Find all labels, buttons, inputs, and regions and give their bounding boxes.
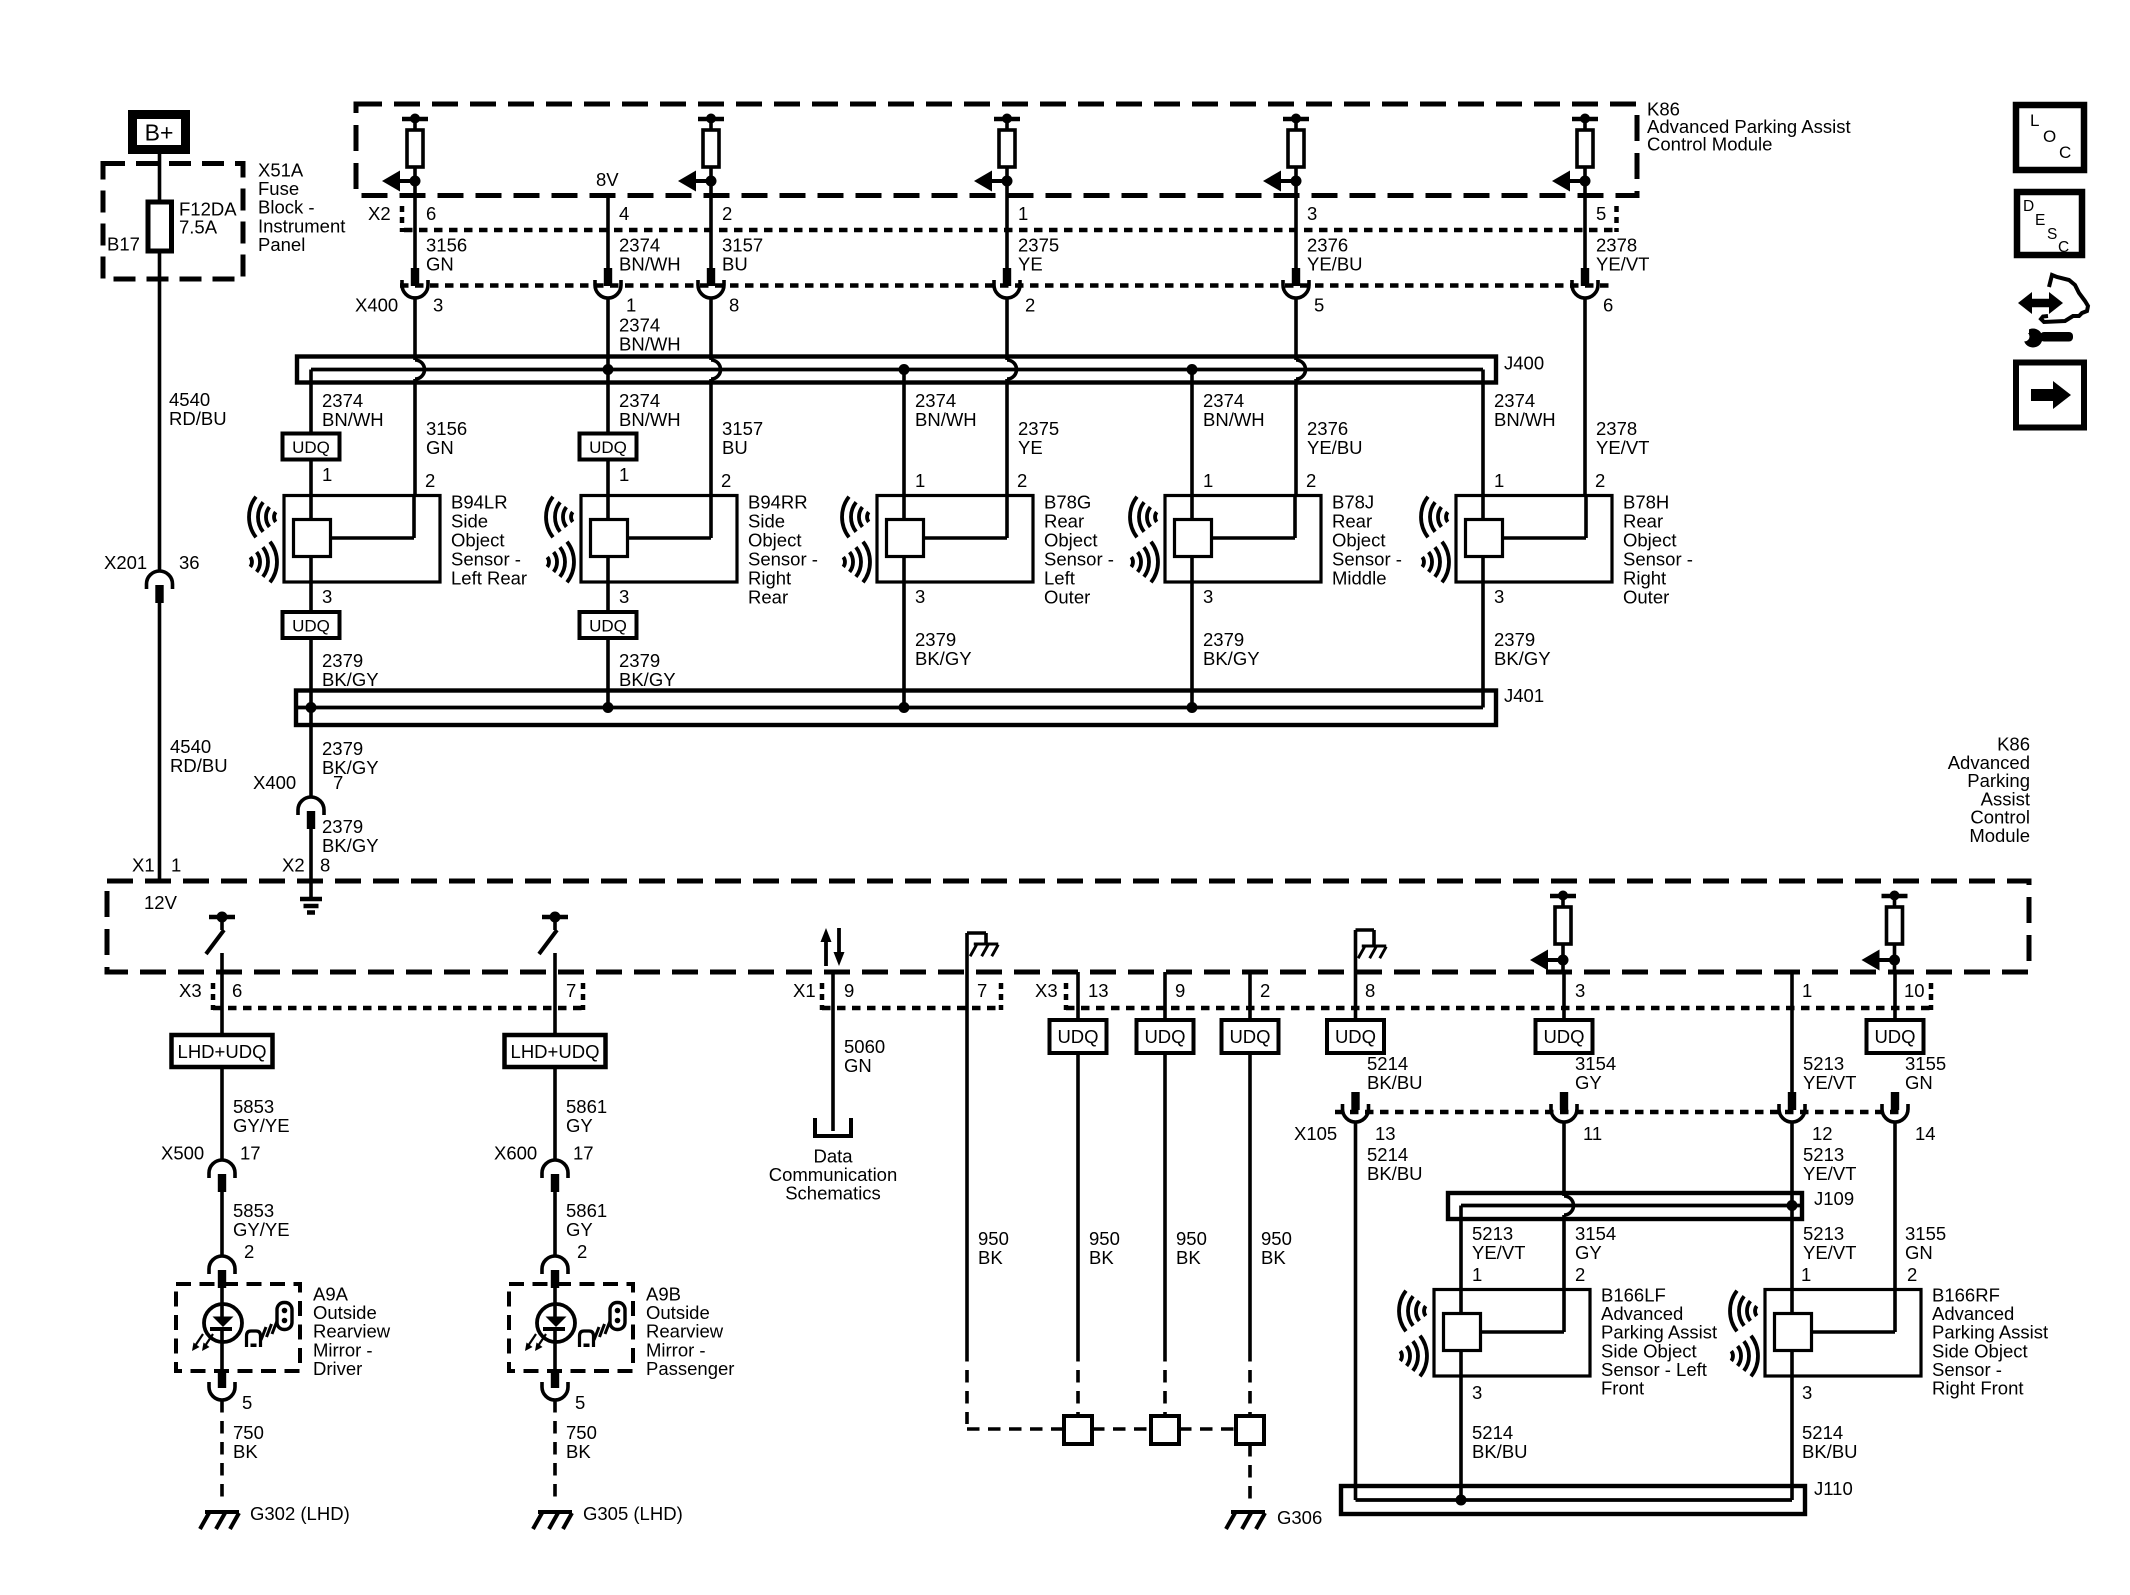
dashed links between splices <box>1092 1427 1151 1431</box>
wire to X2 <box>1583 181 1587 268</box>
wire to X2 <box>1005 181 1009 268</box>
svg-text:Rear: Rear <box>1044 511 1084 532</box>
wire 5214 BK/BU to J110 <box>1354 1122 1358 1500</box>
connector pin 5 <box>218 1370 226 1388</box>
svg-text:UDQ: UDQ <box>1229 1026 1270 1047</box>
svg-text:950: 950 <box>1261 1228 1292 1249</box>
ground G305 <box>538 1510 572 1514</box>
svg-text:BU: BU <box>722 254 748 275</box>
svg-text:X400: X400 <box>253 772 296 793</box>
connector X105 terminal <box>1788 1092 1796 1110</box>
svg-text:X2: X2 <box>282 855 305 876</box>
svg-text:BK: BK <box>566 1441 591 1462</box>
svg-text:2: 2 <box>1260 980 1270 1001</box>
svg-text:2: 2 <box>425 470 435 491</box>
svg-text:2374: 2374 <box>619 390 660 411</box>
svg-text:Rear: Rear <box>1332 511 1372 532</box>
svg-text:Front: Front <box>1601 1378 1644 1399</box>
svg-text:7.5A: 7.5A <box>179 217 218 238</box>
DESC navigation icon <box>2017 192 2082 255</box>
ultrasonic icon for B94LR <box>249 497 277 583</box>
svg-text:5214: 5214 <box>1472 1422 1513 1443</box>
svg-text:Object: Object <box>1332 530 1385 551</box>
connector X400 row <box>400 283 1610 288</box>
ultrasonic icon for B78J <box>1130 497 1158 583</box>
resistor (module internal, output 3) <box>1002 114 1012 124</box>
svg-text:7: 7 <box>977 980 987 1001</box>
svg-text:5213: 5213 <box>1472 1223 1513 1244</box>
svg-text:3: 3 <box>619 586 629 607</box>
wire 3154 GY pin 3 <box>1562 972 1566 1020</box>
connector X400 terminal <box>604 268 612 286</box>
svg-text:BN/WH: BN/WH <box>322 409 384 430</box>
svg-text:3: 3 <box>1575 980 1585 1001</box>
svg-text:B78G: B78G <box>1044 492 1091 513</box>
connector pin 2 <box>542 1256 568 1274</box>
outside rearview mirror A9B dashed box <box>509 1284 633 1371</box>
svg-text:UDQ: UDQ <box>1543 1026 1584 1047</box>
svg-text:1: 1 <box>626 295 636 316</box>
wire 5213 YE/VT through J109 <box>1790 1122 1794 1290</box>
svg-text:5853: 5853 <box>233 1200 274 1221</box>
wire 3154 GY to B166LF pin2 (hops J109) <box>1562 1122 1566 1196</box>
svg-text:2379: 2379 <box>322 650 363 671</box>
svg-text:UDQ: UDQ <box>1057 1026 1098 1047</box>
svg-text:BN/WH: BN/WH <box>1494 409 1556 430</box>
svg-text:YE/BU: YE/BU <box>1307 254 1363 275</box>
svg-text:Side: Side <box>451 511 488 532</box>
svg-text:2379: 2379 <box>322 738 363 759</box>
svg-text:2378: 2378 <box>1596 235 1637 256</box>
svg-text:UDQ: UDQ <box>292 617 330 636</box>
wire B+ to fuse <box>158 154 162 202</box>
svg-text:LHD+UDQ: LHD+UDQ <box>511 1041 600 1062</box>
svg-text:BK/GY: BK/GY <box>1494 648 1551 669</box>
svg-text:GY/YE: GY/YE <box>233 1219 290 1240</box>
wire 5214 BK/BU pin 8 <box>1354 972 1358 1020</box>
option box LHD+UDQ <box>505 1035 606 1067</box>
svg-text:YE: YE <box>1018 437 1043 458</box>
wire <box>553 1067 557 1160</box>
svg-text:10: 10 <box>1904 980 1925 1001</box>
svg-text:5: 5 <box>575 1392 585 1413</box>
svg-text:3: 3 <box>1203 586 1213 607</box>
svg-text:2375: 2375 <box>1018 418 1059 439</box>
internal resistor for pin 10 <box>1890 891 1900 901</box>
svg-text:1: 1 <box>171 855 181 876</box>
connector X400 terminal <box>1003 268 1011 286</box>
svg-text:C: C <box>2059 143 2071 162</box>
svg-text:2374: 2374 <box>619 315 660 336</box>
svg-text:1: 1 <box>1494 470 1504 491</box>
svg-text:3: 3 <box>1494 586 1504 607</box>
svg-text:3156: 3156 <box>426 235 467 256</box>
svg-text:Sensor -: Sensor - <box>1623 549 1693 570</box>
svg-text:GY: GY <box>1575 1072 1602 1093</box>
svg-text:Sensor -: Sensor - <box>1332 549 1402 570</box>
svg-text:2374: 2374 <box>915 390 956 411</box>
svg-text:BK/GY: BK/GY <box>322 669 379 690</box>
svg-text:12: 12 <box>1812 1123 1833 1144</box>
wire to LHD+UDQ left <box>220 972 224 1035</box>
svg-text:BK/BU: BK/BU <box>1472 1441 1528 1462</box>
internal switch (left mirror out) <box>209 915 235 920</box>
ultrasonic icon for B94RR <box>546 497 574 583</box>
serial data arrows <box>821 928 832 942</box>
svg-text:B+: B+ <box>145 120 174 146</box>
wire to X2 <box>413 181 417 268</box>
svg-text:3154: 3154 <box>1575 1053 1616 1074</box>
wrench <box>2024 329 2043 348</box>
option code UDQ <box>1137 1020 1194 1053</box>
wire through J400 with hop <box>413 298 417 360</box>
svg-text:S: S <box>2047 226 2057 243</box>
svg-text:GN: GN <box>426 254 454 275</box>
svg-text:GN: GN <box>844 1055 872 1076</box>
wire 950 BK (pin 2) <box>1248 972 1252 1020</box>
off-page bracket Data Communication <box>815 1118 851 1136</box>
svg-text:YE/VT: YE/VT <box>1803 1163 1856 1184</box>
svg-text:BK: BK <box>1176 1247 1201 1268</box>
svg-text:6: 6 <box>232 980 242 1001</box>
svg-text:Right: Right <box>1623 568 1666 589</box>
svg-text:RD/BU: RD/BU <box>170 755 228 776</box>
svg-text:UDQ: UDQ <box>292 438 330 457</box>
ground G306 <box>1231 1510 1265 1514</box>
svg-text:Left: Left <box>1044 568 1075 589</box>
svg-text:UDQ: UDQ <box>1335 1026 1376 1047</box>
svg-text:2376: 2376 <box>1307 235 1348 256</box>
svg-text:5213: 5213 <box>1803 1144 1844 1165</box>
svg-text:UDQ: UDQ <box>1874 1026 1915 1047</box>
svg-text:LHD+UDQ: LHD+UDQ <box>178 1041 267 1062</box>
K86 Advanced Parking Assist Control Module (top) dashed box <box>356 104 1637 196</box>
svg-text:6: 6 <box>426 203 436 224</box>
svg-text:BK: BK <box>978 1247 1003 1268</box>
svg-text:2: 2 <box>1575 1264 1585 1285</box>
svg-text:G305 (LHD): G305 (LHD) <box>583 1503 683 1524</box>
svg-text:G302 (LHD): G302 (LHD) <box>250 1503 350 1524</box>
K86 Advanced Parking Assist Control Module (bottom) dashed box <box>107 881 2029 972</box>
svg-text:Schematics: Schematics <box>785 1183 881 1204</box>
svg-text:J401: J401 <box>1504 685 1544 706</box>
ultrasonic icon for B166LF <box>1399 1291 1427 1377</box>
svg-text:5: 5 <box>1314 295 1324 316</box>
svg-text:BK: BK <box>233 1441 258 1462</box>
svg-text:2: 2 <box>1306 470 1316 491</box>
option code UDQ <box>580 434 637 460</box>
svg-text:B17: B17 <box>107 234 140 255</box>
svg-text:X400: X400 <box>355 295 398 316</box>
svg-text:Control Module: Control Module <box>1647 134 1772 155</box>
svg-text:8: 8 <box>320 855 330 876</box>
wire 750 BK <box>220 1400 224 1502</box>
sensor B94LR <box>284 496 440 583</box>
internal ground for pin 8 <box>1354 930 1358 972</box>
svg-text:BN/WH: BN/WH <box>619 409 681 430</box>
svg-text:Object: Object <box>1044 530 1097 551</box>
wire 750 BK <box>553 1400 557 1502</box>
svg-text:1: 1 <box>1802 980 1812 1001</box>
svg-text:2374: 2374 <box>1494 390 1535 411</box>
svg-text:Passenger: Passenger <box>646 1358 734 1379</box>
svg-text:1: 1 <box>619 464 629 485</box>
svg-text:C: C <box>2058 239 2069 256</box>
svg-text:GY: GY <box>566 1219 593 1240</box>
option code UDQ <box>283 434 340 460</box>
svg-text:3: 3 <box>1307 203 1317 224</box>
svg-text:2379: 2379 <box>915 629 956 650</box>
svg-text:5213: 5213 <box>1803 1223 1844 1244</box>
svg-text:2: 2 <box>1025 295 1035 316</box>
svg-text:1: 1 <box>1203 470 1213 491</box>
svg-text:2374: 2374 <box>322 390 363 411</box>
svg-text:X600: X600 <box>494 1143 537 1164</box>
LED / mirror display icon <box>220 1288 224 1317</box>
svg-text:BK: BK <box>1089 1247 1114 1268</box>
svg-text:3157: 3157 <box>722 418 763 439</box>
splice pack J401 <box>296 691 1496 726</box>
vehicle/service icon <box>2041 275 2088 322</box>
wire 950 BK (pin 13) <box>1076 972 1080 1020</box>
connector X105 terminal <box>1560 1092 1568 1110</box>
svg-text:2: 2 <box>1907 1264 1917 1285</box>
ultrasonic icon for B78H <box>1421 497 1449 583</box>
svg-text:3154: 3154 <box>1575 1223 1616 1244</box>
svg-text:5214: 5214 <box>1802 1422 1843 1443</box>
J400 drops <box>309 370 313 434</box>
svg-text:36: 36 <box>179 552 200 573</box>
resistor (module internal, output 1) <box>410 114 420 124</box>
svg-text:Right: Right <box>748 568 791 589</box>
wire 2378 YE/VT down to B78H pin2 <box>1583 298 1587 496</box>
svg-text:BN/WH: BN/WH <box>619 254 681 275</box>
svg-text:J109: J109 <box>1814 1188 1854 1209</box>
option code UDQ <box>1222 1020 1279 1053</box>
J400 junction dots <box>603 364 614 375</box>
svg-text:3155: 3155 <box>1905 1223 1946 1244</box>
option code UDQ <box>1536 1020 1593 1053</box>
svg-text:X201: X201 <box>104 552 147 573</box>
svg-text:GY: GY <box>566 1115 593 1136</box>
svg-text:X1: X1 <box>793 980 816 1001</box>
svg-text:RD/BU: RD/BU <box>169 408 227 429</box>
svg-text:5214: 5214 <box>1367 1053 1408 1074</box>
svg-text:2379: 2379 <box>1494 629 1535 650</box>
svg-text:Sensor -: Sensor - <box>1044 549 1114 570</box>
svg-text:Right Front: Right Front <box>1932 1378 2024 1399</box>
svg-text:BK/GY: BK/GY <box>1203 648 1260 669</box>
svg-text:BK/GY: BK/GY <box>619 669 676 690</box>
svg-text:Rear: Rear <box>1623 511 1663 532</box>
svg-text:X3: X3 <box>179 980 202 1001</box>
svg-text:3: 3 <box>1472 1382 1482 1403</box>
svg-text:1: 1 <box>1801 1264 1811 1285</box>
svg-text:UDQ: UDQ <box>589 617 627 636</box>
wire to G306 <box>1248 1444 1252 1502</box>
connector X105 terminal <box>1891 1092 1899 1110</box>
svg-text:J110: J110 <box>1814 1478 1853 1499</box>
svg-text:B78H: B78H <box>1623 492 1669 513</box>
svg-text:X3: X3 <box>1035 980 1058 1001</box>
option code UDQ <box>283 612 340 638</box>
svg-text:2: 2 <box>722 203 732 224</box>
svg-text:3155: 3155 <box>1905 1053 1946 1074</box>
svg-text:D: D <box>2023 198 2034 215</box>
svg-text:Left Rear: Left Rear <box>451 568 527 589</box>
wire 5213 YE/VT pin 1 <box>1790 972 1794 1092</box>
svg-text:17: 17 <box>573 1143 594 1164</box>
svg-text:Side: Side <box>748 511 785 532</box>
svg-text:Module: Module <box>1969 825 2030 846</box>
ultrasonic icon for B78G <box>842 497 870 583</box>
resistor (module internal, output 2) <box>706 114 716 124</box>
svg-text:BN/WH: BN/WH <box>1203 409 1265 430</box>
internal switch (right mirror out) <box>542 915 568 920</box>
sensor B78G <box>877 496 1033 583</box>
svg-text:BK/GY: BK/GY <box>322 835 379 856</box>
svg-text:GN: GN <box>426 437 454 458</box>
option box LHD+UDQ <box>172 1035 273 1067</box>
LOC navigation icon <box>2016 105 2084 170</box>
wire 950 BK (pin 9) <box>1163 972 1167 1020</box>
svg-text:BN/WH: BN/WH <box>915 409 977 430</box>
svg-text:13: 13 <box>1088 980 1109 1001</box>
svg-text:5861: 5861 <box>566 1096 607 1117</box>
wire to X2 <box>709 181 713 268</box>
svg-text:8: 8 <box>1365 980 1375 1001</box>
splice pack J400 <box>297 357 1496 383</box>
inline splice <box>1236 1416 1264 1444</box>
svg-text:5: 5 <box>1596 203 1606 224</box>
svg-text:1: 1 <box>915 470 925 491</box>
svg-text:13: 13 <box>1375 1123 1396 1144</box>
svg-text:YE/VT: YE/VT <box>1596 254 1649 275</box>
svg-text:9: 9 <box>844 980 854 1001</box>
svg-text:1: 1 <box>322 464 332 485</box>
sensor B94RR <box>581 496 737 583</box>
connector X400 terminal <box>707 268 715 286</box>
svg-text:BK/BU: BK/BU <box>1802 1441 1858 1462</box>
svg-text:950: 950 <box>1176 1228 1207 1249</box>
option code UDQ <box>1050 1020 1107 1053</box>
svg-text:Driver: Driver <box>313 1358 362 1379</box>
wire to X2 <box>1294 181 1298 268</box>
svg-text:3: 3 <box>915 586 925 607</box>
svg-text:950: 950 <box>1089 1228 1120 1249</box>
svg-text:GN: GN <box>1905 1072 1933 1093</box>
svg-text:5060: 5060 <box>844 1036 885 1057</box>
svg-text:950: 950 <box>978 1228 1009 1249</box>
svg-text:2376: 2376 <box>1307 418 1348 439</box>
svg-text:Object: Object <box>1623 530 1676 551</box>
svg-text:B94LR: B94LR <box>451 492 508 513</box>
option code UDQ <box>580 612 637 638</box>
next-page arrow icon <box>2016 363 2084 428</box>
svg-text:6: 6 <box>1603 295 1613 316</box>
fuse block X51A dashed box <box>103 164 243 280</box>
svg-text:12V: 12V <box>144 892 178 913</box>
svg-text:11: 11 <box>1583 1123 1602 1144</box>
svg-text:Sensor -: Sensor - <box>748 549 818 570</box>
wire through J400 with hop <box>709 298 713 360</box>
svg-text:Object: Object <box>451 530 504 551</box>
svg-text:UDQ: UDQ <box>1144 1026 1185 1047</box>
svg-text:Panel: Panel <box>258 234 305 255</box>
sensor B78H <box>1456 496 1612 583</box>
inline splice <box>1151 1416 1179 1444</box>
svg-text:BU: BU <box>722 437 748 458</box>
svg-text:8: 8 <box>729 295 739 316</box>
svg-text:UDQ: UDQ <box>589 438 627 457</box>
svg-text:4: 4 <box>619 203 629 224</box>
wire <box>220 1067 224 1160</box>
ground G302 <box>205 1510 239 1514</box>
connector X400 terminal <box>1292 268 1300 286</box>
svg-text:3157: 3157 <box>722 235 763 256</box>
option code UDQ <box>1327 1020 1384 1053</box>
svg-text:O: O <box>2043 127 2056 146</box>
svg-text:X105: X105 <box>1294 1123 1337 1144</box>
svg-text:3156: 3156 <box>426 418 467 439</box>
wire 3155 GN pin 10 <box>1893 972 1897 1020</box>
svg-text:B94RR: B94RR <box>748 492 808 513</box>
internal ground for pin 7 <box>965 933 969 972</box>
splice pack J109 <box>1448 1193 1802 1219</box>
svg-text:2379: 2379 <box>1203 629 1244 650</box>
fuse F12DA 7.5A <box>148 202 172 251</box>
svg-text:BK/BU: BK/BU <box>1367 1072 1423 1093</box>
wire 2379 BK/GY J401 to X400/7 <box>309 708 313 798</box>
svg-text:1: 1 <box>1018 203 1028 224</box>
sensor B166LF <box>1434 1290 1590 1377</box>
svg-text:Middle: Middle <box>1332 568 1387 589</box>
svg-text:2374: 2374 <box>1203 390 1244 411</box>
svg-text:YE/VT: YE/VT <box>1596 437 1649 458</box>
wire <box>553 1192 557 1256</box>
svg-text:Rear: Rear <box>748 587 788 608</box>
connector pin 2 <box>209 1256 235 1274</box>
svg-text:G306: G306 <box>1277 1507 1322 1528</box>
svg-text:YE: YE <box>1018 254 1043 275</box>
svg-text:GN: GN <box>1905 1242 1933 1263</box>
svg-text:750: 750 <box>233 1422 264 1443</box>
svg-text:GY: GY <box>1575 1242 1602 1263</box>
svg-text:BK/GY: BK/GY <box>915 648 972 669</box>
svg-text:L: L <box>2030 111 2039 130</box>
svg-text:X500: X500 <box>161 1143 204 1164</box>
svg-text:Outer: Outer <box>1044 587 1090 608</box>
connector X400 terminal <box>1581 268 1589 286</box>
connector X105 terminal <box>1351 1092 1359 1110</box>
svg-text:2375: 2375 <box>1018 235 1059 256</box>
svg-text:E: E <box>2035 212 2045 229</box>
svg-text:9: 9 <box>1175 980 1185 1001</box>
sensor B166RF <box>1765 1290 1921 1377</box>
svg-text:BK: BK <box>1261 1247 1286 1268</box>
svg-text:YE/VT: YE/VT <box>1803 1242 1856 1263</box>
svg-text:1: 1 <box>1472 1264 1482 1285</box>
svg-text:X2: X2 <box>368 203 391 224</box>
svg-text:2: 2 <box>1017 470 1027 491</box>
svg-text:2: 2 <box>1595 470 1605 491</box>
svg-text:4540: 4540 <box>170 736 211 757</box>
svg-text:Sensor -: Sensor - <box>451 549 521 570</box>
svg-text:2379: 2379 <box>619 650 660 671</box>
svg-text:7: 7 <box>566 980 576 1001</box>
svg-text:X1: X1 <box>132 855 155 876</box>
LED / mirror display icon <box>553 1288 557 1317</box>
